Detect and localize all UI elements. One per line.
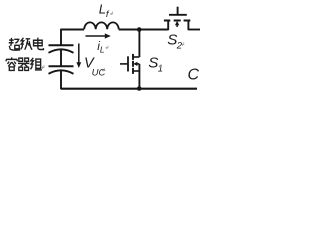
svg-text:Lf: Lf	[99, 2, 110, 20]
voltage arrow VUC	[78, 44, 80, 63]
S2 body arrow	[176, 25, 178, 28]
node junction bottom (source of S1)	[137, 86, 142, 91]
svg-text:S2: S2	[167, 32, 182, 52]
hanzi 组	[30, 58, 41, 70]
supercapacitor stem top	[60, 29, 62, 45]
S1 source wire	[138, 64, 140, 89]
current arrow iL	[86, 35, 107, 37]
supercap plate 4 (curved)	[49, 70, 74, 74]
svg-text:VUC: VUC	[84, 56, 106, 79]
transistor S2 gate lead	[177, 7, 179, 14]
supercap stem mid	[60, 50, 62, 66]
return mark after VUC	[102, 68, 104, 71]
return mark after Lf	[111, 12, 113, 15]
return mark after hanzi line2	[42, 65, 44, 69]
svg-text:C: C	[188, 66, 200, 83]
hanzi 超	[9, 38, 20, 50]
return mark after S1	[159, 64, 161, 67]
S2 right contact	[187, 21, 189, 31]
S1 drain wire	[138, 30, 140, 58]
S1 gate bar	[127, 56, 129, 71]
hanzi 级	[21, 38, 32, 50]
transistor S1 gate lead	[120, 63, 127, 65]
node junction top (drain of S1)	[137, 27, 142, 32]
supercap plate 2 (curved)	[49, 49, 74, 53]
S2 left contact	[167, 21, 169, 31]
return mark after iL	[106, 46, 108, 49]
S1 channel segments	[132, 54, 134, 74]
S1 source stub	[133, 70, 139, 72]
S1 body arrow stub	[136, 63, 139, 65]
hanzi 电	[34, 38, 44, 50]
wire top right after S2	[188, 29, 200, 31]
wire top: capacitor stem junction to inductor	[61, 29, 84, 31]
supercap plate 3 (flat)	[49, 65, 74, 67]
bottom wire	[61, 88, 197, 90]
S1 drain stub	[133, 56, 139, 58]
S2 channel segments	[164, 20, 190, 22]
return mark after S2	[182, 42, 184, 45]
supercap plate 1 (flat)	[49, 44, 74, 46]
wire top: inductor to S2	[119, 29, 169, 31]
hanzi 容	[6, 57, 17, 70]
svg-text:iL: iL	[97, 39, 105, 55]
S2 gate plate	[169, 14, 187, 16]
inductor Lf	[84, 22, 119, 29]
hanzi 器	[18, 58, 29, 70]
supercap stem bottom	[60, 71, 62, 89]
